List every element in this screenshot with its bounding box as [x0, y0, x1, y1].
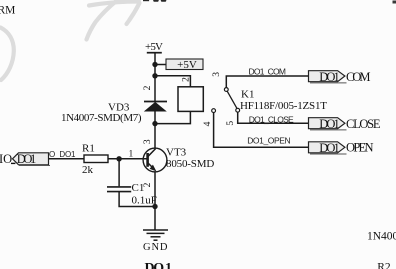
junction: [116, 156, 121, 161]
relay K1 coil: [178, 87, 203, 112]
port DO1 CLOSE: [309, 117, 347, 131]
port DO1 COM: [309, 70, 347, 84]
wire: [154, 65, 156, 76]
port DO1 OPEN: [309, 141, 347, 155]
wire: [154, 207, 156, 231]
svg-text:0.1uF: 0.1uF: [132, 194, 157, 206]
wire: [238, 112, 309, 123]
svg-text:DO1: DO1: [17, 152, 37, 166]
diode VD3: [144, 102, 167, 124]
text IO_ (clipped label): [0, 152, 15, 166]
svg-text:DO1_OPEN: DO1_OPEN: [247, 136, 291, 146]
svg-text:5: 5: [226, 121, 236, 126]
ground: [143, 230, 168, 240]
wire: [154, 124, 156, 149]
capacitor C1: [107, 187, 131, 192]
wire: [155, 64, 166, 66]
svg-text:C1: C1: [132, 182, 145, 194]
svg-text:CLOSE: CLOSE: [346, 117, 381, 131]
relay K1 contact: [212, 88, 240, 113]
wire: [118, 159, 120, 187]
junction: [152, 204, 157, 209]
wire: [49, 158, 85, 160]
svg-text:2k: 2k: [82, 164, 94, 176]
svg-text:DO1: DO1: [319, 141, 340, 155]
svg-text:DO1_CLOSE: DO1_CLOSE: [249, 114, 294, 124]
wire: [154, 76, 156, 102]
junction: [152, 121, 157, 126]
svg-text:HF118F/005-1ZS1T: HF118F/005-1ZS1T: [240, 100, 327, 112]
svg-text:+5V: +5V: [177, 59, 197, 71]
wire: [154, 171, 156, 206]
text fragment DO (clipped at top edge): [143, 0, 166, 2]
wire: [155, 111, 190, 123]
svg-text:DO1_COM: DO1_COM: [249, 66, 287, 76]
svg-text:3: 3: [143, 139, 153, 144]
svg-text:2: 2: [181, 77, 191, 82]
wire: [119, 192, 155, 207]
svg-text:IO: IO: [0, 152, 12, 166]
svg-text:RM: RM: [0, 4, 15, 16]
svg-text:DO 1: DO 1: [145, 261, 173, 269]
svg-text:OPEN: OPEN: [346, 140, 374, 154]
svg-text:R2: R2: [377, 261, 391, 269]
svg-text:GND: GND: [143, 242, 168, 253]
svg-text:K1: K1: [241, 89, 254, 101]
svg-text:VT3: VT3: [166, 147, 187, 159]
junction: [152, 62, 157, 67]
svg-text:R1: R1: [82, 142, 95, 154]
power +5V: [145, 41, 163, 65]
svg-text:O_DO1: O_DO1: [49, 150, 76, 159]
svg-text:2: 2: [143, 85, 153, 90]
decorative watermark strokes (no labels needed): [1, 0, 140, 80]
svg-text:1N400: 1N400: [367, 231, 396, 243]
net label box +5V: [166, 59, 203, 71]
svg-text:1: 1: [129, 150, 134, 160]
wire: [214, 113, 309, 148]
svg-text:3: 3: [212, 72, 222, 77]
resistor R1: [84, 155, 108, 163]
svg-text:1N4007-SMD(M7): 1N4007-SMD(M7): [61, 112, 142, 124]
svg-text:+5V: +5V: [145, 41, 163, 53]
junction: [152, 73, 157, 78]
port DO1 (left): [13, 152, 51, 166]
wire: [155, 76, 190, 87]
wire: [108, 158, 148, 160]
svg-text:4: 4: [203, 121, 213, 126]
svg-text:8050-SMD: 8050-SMD: [166, 158, 214, 170]
transistor VT3: [143, 148, 167, 172]
svg-text:DO1: DO1: [319, 70, 340, 84]
wire: [226, 76, 308, 88]
svg-text:DO1: DO1: [319, 117, 340, 131]
text fragment (top right corner): [393, 1, 396, 4]
svg-text:COM: COM: [346, 70, 371, 84]
